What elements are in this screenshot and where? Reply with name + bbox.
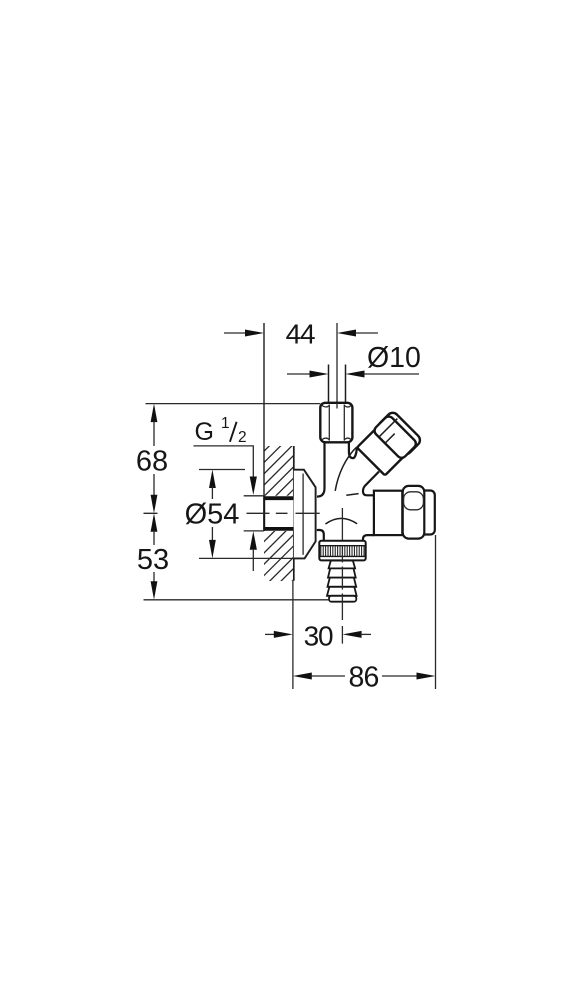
wall face extension (30/86 dims) <box>292 581 294 689</box>
svg-text:68: 68 <box>136 446 168 478</box>
cap axial line <box>385 434 394 443</box>
right outlet main cylinder <box>374 491 402 535</box>
right outlet end cap <box>420 491 435 535</box>
wall hatching <box>230 420 533 723</box>
svg-text:53: 53 <box>137 544 169 576</box>
wall left edge / 44 extension line <box>263 323 265 531</box>
knurled nut <box>319 541 365 561</box>
svg-text:30: 30 <box>304 620 333 651</box>
nipple edge extension lines <box>244 496 264 531</box>
top union nut <box>320 403 352 443</box>
wall face line <box>293 446 295 581</box>
nipple end ring <box>329 596 356 602</box>
handle collar <box>372 414 417 459</box>
svg-text:G: G <box>195 418 214 446</box>
internal dome arc <box>325 518 357 524</box>
svg-text:Ø54: Ø54 <box>185 498 240 530</box>
label G 1/2 <box>194 415 257 571</box>
dim 30 <box>265 620 371 651</box>
outlet nut facet <box>404 492 424 510</box>
flange inner line <box>302 474 304 555</box>
internal seat dash <box>346 494 358 496</box>
knurl stripes <box>320 546 364 557</box>
dim Ø54 <box>185 470 294 559</box>
handle base square <box>357 420 413 476</box>
top pipe Ø10 <box>329 365 346 404</box>
hose nipple barbs <box>327 561 357 602</box>
wall face line across nipple (faint) <box>293 500 295 528</box>
svg-text:44: 44 <box>286 318 315 349</box>
top pipe axis / 44 right extension <box>336 323 338 408</box>
internal S-curve <box>335 447 357 491</box>
svg-text:86: 86 <box>348 661 378 693</box>
svg-text:1: 1 <box>221 415 230 432</box>
dim 86 <box>293 535 436 693</box>
thread nipple in wall G1/2 <box>264 496 294 531</box>
handle assembly (rotated 45°) <box>356 410 422 476</box>
dim 68 top extension <box>146 403 321 405</box>
handle outer cap <box>376 410 422 456</box>
pipe axis inside nut <box>336 403 338 409</box>
valve body right neck J-hook <box>349 442 357 458</box>
body relief to right outlet <box>363 472 379 496</box>
escutcheon flange <box>294 470 316 559</box>
bottom outlet centerline <box>341 508 343 644</box>
nut facet lines <box>329 405 344 441</box>
body bottom-left <box>317 530 324 541</box>
dim 53 <box>137 513 169 600</box>
valve body left edge <box>317 442 325 496</box>
dim Ø10 <box>287 342 421 378</box>
main centerline horizontal <box>144 512 320 514</box>
dim 53 bottom extension <box>144 599 330 601</box>
nut facet chamfers <box>322 406 351 440</box>
cap facet line <box>379 419 397 437</box>
svg-text:Ø10: Ø10 <box>367 342 421 374</box>
body bottom-right into knurl <box>363 535 374 541</box>
dim 44 <box>224 318 378 349</box>
svg-text:2: 2 <box>238 429 247 446</box>
right outlet hex nut <box>403 486 425 539</box>
dim 68 <box>136 404 168 514</box>
